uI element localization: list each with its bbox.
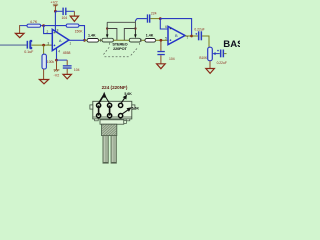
- pot rear view: measuring arrow to title: [99, 92, 110, 104]
- wire: input line: [0, 44, 27, 46]
- pot rear view: flange: [100, 120, 126, 124]
- svg-text:104: 104: [61, 16, 67, 20]
- svg-text:0.22uF: 0.22uF: [217, 61, 227, 65]
- wire: junction to inverting input pin2: [44, 26, 53, 34]
- power +V2: [50, 0, 58, 32]
- svg-text:1.4K: 1.4K: [146, 34, 154, 38]
- wire: op A output: [69, 39, 85, 41]
- node: junction noninverting input: [42, 44, 45, 47]
- pot rear view: threaded bushing: [102, 124, 117, 135]
- pot rear view: shaft: [103, 136, 117, 164]
- pot rear view: terminal links: [99, 105, 110, 115]
- capacitor 0.22uF coupling: [192, 28, 209, 48]
- wire: cap to pin3: [32, 44, 53, 46]
- node: pin5 junction: [160, 39, 163, 42]
- svg-text:104: 104: [74, 68, 80, 72]
- mechanical gang dashed line: [103, 43, 140, 57]
- svg-text:100k: 100k: [47, 60, 55, 64]
- potentiometer stereo section 1: [102, 22, 117, 42]
- op-amp U1B: [165, 25, 188, 44]
- arrow 5.6K lower: [122, 107, 139, 114]
- node: pin4 junction: [55, 59, 58, 62]
- svg-text:1.4K: 1.4K: [88, 34, 96, 38]
- capacitor 224: [137, 11, 160, 22]
- potentiometer B10K: [199, 47, 219, 68]
- svg-text:2: 2: [47, 30, 49, 34]
- svg-text:BASS: BASS: [223, 39, 240, 50]
- capacitor 104 at pin5: [157, 40, 174, 63]
- ground below pin5 cap: [157, 64, 166, 69]
- svg-text:5: 5: [165, 37, 167, 41]
- resistor 1.4K right: [141, 34, 168, 43]
- resistor 4.7K: [20, 20, 44, 27]
- svg-text:1: 1: [69, 41, 71, 45]
- ground bottom bypass: [63, 74, 71, 79]
- pot rear view: terminals: [97, 103, 123, 117]
- capacitor 104 bottom bypass: [63, 65, 80, 74]
- capacitor 0.22uF output: [217, 50, 227, 65]
- svg-text:5.6K: 5.6K: [124, 92, 132, 96]
- svg-text:104: 104: [169, 57, 175, 61]
- svg-text:A: A: [59, 38, 62, 43]
- svg-text:224: 224: [151, 11, 157, 15]
- svg-text:0.1uF: 0.1uF: [24, 50, 34, 54]
- wire: junction down to pin6: [160, 19, 168, 29]
- op-amp U1A 4558: [47, 28, 72, 54]
- arrow 5.6K upper: [121, 92, 132, 103]
- wire: pin4 to bottom bypass cap: [57, 60, 68, 65]
- wire: feedback top to output: [160, 19, 191, 36]
- node: cap 224 to pin6 junction: [159, 17, 162, 20]
- wire: output to 1.4K: [85, 39, 88, 41]
- svg-text:B10K: B10K: [199, 56, 208, 60]
- svg-text:5.6K: 5.6K: [132, 107, 140, 111]
- potentiometer stereo section 2: [124, 27, 140, 42]
- svg-text:+V2: +V2: [50, 0, 58, 5]
- svg-text:4.7K: 4.7K: [30, 20, 38, 24]
- svg-text:6: 6: [165, 25, 167, 29]
- svg-text:150K: 150K: [75, 30, 84, 34]
- ground top bypass: [70, 16, 78, 21]
- wire: between pot sections: [113, 39, 129, 41]
- capacitor 104 top bypass: [61, 8, 74, 20]
- node: output junction B: [190, 35, 193, 38]
- svg-text:3: 3: [47, 42, 49, 46]
- wire: wiper link: [107, 19, 137, 29]
- svg-text:8: 8: [57, 28, 59, 32]
- svg-text:4: 4: [58, 49, 60, 53]
- svg-text:224 (220NF): 224 (220NF): [102, 85, 128, 90]
- svg-text:0.22uF: 0.22uF: [194, 28, 204, 32]
- node: feedback junction: [42, 24, 45, 27]
- ground below B10K: [206, 69, 215, 74]
- node: output junction A: [83, 39, 86, 42]
- resistor 100k: [42, 45, 54, 79]
- wire: 4.7K to ground: [19, 25, 21, 33]
- wire: 150K to output: [79, 26, 85, 41]
- svg-text:-V2: -V2: [54, 73, 60, 77]
- ground below 100k: [39, 80, 48, 84]
- wire: +V2 to bypass cap: [55, 10, 62, 12]
- label STEREO 220POT: [112, 41, 127, 51]
- resistor 150K: [66, 24, 83, 34]
- ground below 4.7K: [15, 33, 24, 37]
- svg-text:220POT: 220POT: [113, 46, 127, 51]
- wire: op B output: [185, 35, 192, 37]
- pot rear view: body: [90, 101, 135, 121]
- resistor 1.4K left: [87, 34, 102, 43]
- wire: pin4 down: [56, 48, 58, 60]
- svg-text:B: B: [175, 33, 178, 38]
- capacitor 0.1uF: [24, 40, 34, 54]
- power -V2: [54, 60, 60, 77]
- svg-text:4558: 4558: [63, 51, 71, 55]
- wire: junction to 150K: [44, 25, 67, 27]
